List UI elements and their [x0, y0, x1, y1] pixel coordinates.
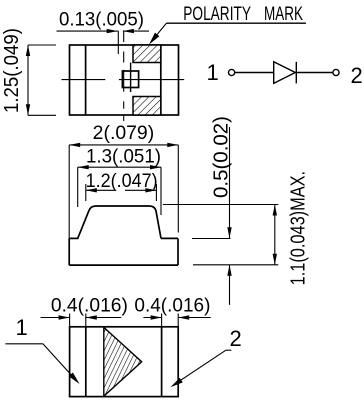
- dimension 0.4 left: extension lines: [69, 314, 71, 327]
- svg-text:0.13(.005): 0.13(.005): [59, 10, 144, 31]
- dimension 0.5 arrow down: [227, 227, 231, 238]
- svg-text:0.4(.016): 0.4(.016): [134, 296, 210, 317]
- dimension 1.3 extension left: [77, 167, 79, 207]
- dimension 2 arrow left: [69, 143, 80, 147]
- dimension 0.4 left: dim line inner: [86, 317, 122, 319]
- pin 1 leader diagonal: [43, 344, 74, 378]
- side view: base right edge: [177, 238, 179, 265]
- svg-text:1: 1: [16, 315, 28, 340]
- schematic diode cathode bar: [295, 62, 297, 84]
- extension line base top level: [192, 238, 231, 240]
- top view: cathode polarity mark hatched rect (upper): [133, 45, 161, 63]
- svg-text:2: 2: [230, 326, 242, 351]
- polarity mark underline: [166, 22, 306, 24]
- extension line base bottom level: [193, 264, 278, 266]
- top view: horizontal centerline left part: [62, 79, 106, 81]
- schematic pin 2 circle: [333, 69, 339, 75]
- pin 2 leader stub: [226, 349, 232, 351]
- dimension 1.3 arrow left: [78, 165, 89, 169]
- bottom view: package outline: [70, 327, 179, 397]
- dimension 1.2 extension right: [155, 184, 157, 201]
- dimension 2 dim line: [69, 144, 178, 146]
- dimension 1.25 extension bottom: [28, 114, 56, 116]
- bottom view: polarity triangle hatched: [104, 327, 142, 396]
- svg-text:1: 1: [207, 60, 219, 85]
- dimension 1.25 extension top: [28, 44, 56, 46]
- side view: epoxy dome profile: [78, 206, 161, 238]
- dimension 0.5 arrow up: [227, 265, 231, 276]
- dimension 1.3 extension right: [160, 167, 162, 215]
- polarity mark leader arrowhead: [149, 33, 159, 45]
- dimension 0.4 left: arrow right-pointing: [59, 315, 70, 319]
- schematic anode wire: [235, 72, 274, 74]
- polarity mark leader: [151, 23, 166, 42]
- bottom view: right terminal line: [161, 327, 163, 397]
- top view: die edge line: [130, 63, 132, 93]
- svg-text:0.4(.016): 0.4(.016): [51, 296, 128, 317]
- top view: vertical centerline segments: [123, 31, 125, 121]
- pin 2 leader diagonal: [175, 350, 226, 384]
- schematic diode triangle: [274, 62, 296, 84]
- dimension 1.2 dim line left: [86, 189, 115, 191]
- dimension 1.25 dim line: [27, 45, 29, 115]
- dimension 0.13 dim line right: [123, 30, 149, 32]
- dimension 0.5 dim line upper: [229, 127, 231, 238]
- pin 2 leader arrowhead: [170, 378, 182, 388]
- extension line dome top level: [163, 204, 278, 206]
- dimension 2 arrow right: [167, 143, 178, 147]
- top view: center pad square: [122, 71, 138, 88]
- dimension 1.2 arrow left: [86, 188, 97, 192]
- top view: cathode polarity mark hatched rect (lower): [133, 97, 161, 116]
- dimension 0.4 right: extension lines: [161, 314, 163, 327]
- side view: base top edge left segment: [69, 237, 78, 239]
- svg-text:MARK: MARK: [264, 4, 303, 25]
- dimension 0.5 dim line lower: [229, 265, 231, 305]
- dimension 0.4 right: dim line inner: [143, 317, 161, 319]
- dimension 0.4 left: arrow left-pointing: [86, 315, 97, 319]
- dimension 0.4 right: arrow left-pointing: [178, 315, 189, 319]
- pin 1 leader arrowhead: [69, 373, 80, 385]
- dimension 1.1 dim line: [274, 205, 276, 265]
- dimension 1.25 arrow bottom: [26, 104, 30, 115]
- dimension 1.25 arrow top: [26, 45, 30, 56]
- dimension 1.1 arrow up: [273, 205, 277, 216]
- pin 1 leader horizontal: [5, 343, 43, 345]
- svg-text:2(.079): 2(.079): [93, 123, 155, 144]
- dimension 0.13 arrow right: [123, 29, 134, 33]
- svg-text:0.5(0.02): 0.5(0.02): [211, 116, 233, 198]
- svg-text:1.25(.049): 1.25(.049): [1, 28, 23, 113]
- dimension 1.1 arrow down: [273, 254, 277, 265]
- svg-text:1.2(.047): 1.2(.047): [86, 171, 158, 192]
- dimension 2 extension left: [68, 145, 70, 239]
- side view: base top edge right segment: [161, 237, 178, 239]
- bottom view: left terminal line: [85, 327, 87, 397]
- top view: right terminal line: [160, 45, 162, 115]
- side view: base left edge: [68, 238, 70, 265]
- top view: horizontal centerline right part: [119, 79, 184, 81]
- dimension 0.4 right: arrow right-pointing: [151, 315, 162, 319]
- dimension 1.2 arrow right: [145, 188, 156, 192]
- dimension 1.2 extension left: [85, 184, 87, 201]
- dimension 1.3 arrow right: [150, 165, 161, 169]
- side view: base bottom edge: [69, 264, 178, 266]
- svg-text:1.3(.051): 1.3(.051): [86, 147, 161, 168]
- top view: package outline: [70, 45, 179, 115]
- svg-text:1.1(0.043)MAX.: 1.1(0.043)MAX.: [288, 171, 310, 286]
- dimension 2 extension right: [177, 145, 179, 233]
- top view: left terminal line: [85, 45, 87, 115]
- dimension 0.13 arrow left: [107, 29, 118, 33]
- dimension 1.2 dim line right: [125, 189, 156, 191]
- svg-text:POLARITY: POLARITY: [183, 4, 251, 25]
- svg-text:2: 2: [351, 63, 363, 88]
- schematic cathode wire: [296, 72, 333, 74]
- dimension 1.3 dim line: [78, 166, 161, 168]
- dimension 0.4 left: dim line outer: [41, 317, 70, 319]
- dimension 0.13 extension line: [117, 31, 119, 54]
- dimension 0.4 right: dim line outer: [178, 317, 211, 319]
- dimension 0.13 dim line left: [57, 30, 118, 32]
- schematic pin 1 circle: [229, 69, 235, 75]
